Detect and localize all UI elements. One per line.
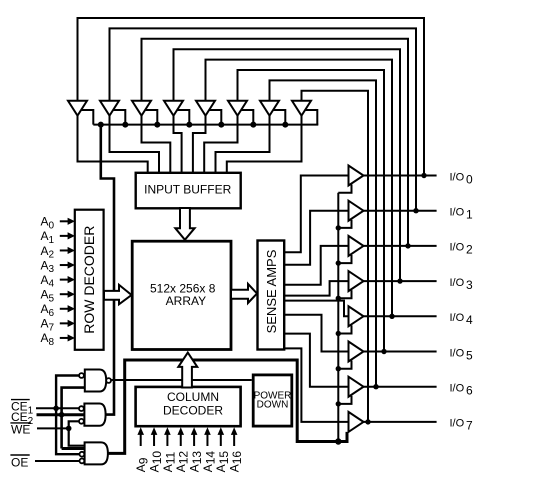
node enable bus tap 5 [250, 122, 256, 128]
wire sense amp out 7 to out tri 7 [284, 348, 350, 422]
wire output of input tri 4 into INPUT BUFFER [193, 114, 206, 175]
buffer input tri 4 [196, 101, 215, 116]
svg-text:OE: OE [11, 456, 28, 470]
wire WE branch vertical [69, 421, 85, 445]
wire I/O5 output line [362, 351, 437, 353]
node CE1 branch [53, 406, 59, 412]
node I/O2 riser junction [405, 243, 410, 248]
wire gate U1 output to POWER DOWN [107, 379, 252, 381]
buffer input tri 2 [132, 101, 151, 116]
wire sense amp out 1 to out tri 1 [284, 211, 350, 265]
block SENSE AMPS [258, 241, 285, 350]
node I/O3 riser junction [397, 278, 402, 283]
label OE with overline [10, 455, 29, 470]
label CE1 with overline [11, 400, 34, 417]
wire I/O3 output line [362, 280, 437, 282]
buffer input tri 0 [68, 101, 87, 116]
input arrow A0 [60, 218, 75, 225]
block INPUT BUFFER [136, 173, 241, 209]
node I/O5 riser junction [381, 349, 386, 354]
block POWER DOWN [253, 375, 292, 426]
wire enable stub of out tri 6 [338, 396, 351, 404]
wire gate U2 output to enable bus [101, 125, 114, 415]
input arrow A5 [60, 291, 75, 298]
gate U1 chip-enable NAND [79, 370, 111, 392]
node enable bus tap 4 [218, 122, 224, 128]
input arrow A2 [60, 247, 75, 254]
buffer output tri I/O7 [349, 412, 364, 432]
input arrow A4 [60, 276, 75, 283]
input arrow A14 [204, 427, 211, 446]
wire enable stub of out tri 0 [338, 185, 351, 193]
svg-text:SENSE AMPS: SENSE AMPS [264, 249, 279, 333]
input arrow A15 [218, 427, 225, 446]
gate U2 write-enable AND [79, 404, 106, 426]
wire DIN2 (I/O2 riser, top bus wire, into input buffer tri) [142, 39, 409, 246]
node OE line tap 1 [336, 225, 341, 230]
wire input-buffer enable bus [93, 124, 318, 126]
wire I/O4 output line [362, 315, 437, 317]
svg-text:DOWN: DOWN [257, 400, 289, 411]
input arrow A12 [177, 427, 184, 446]
node I/O0 riser junction [421, 173, 426, 178]
wire enable stub of input tri 1 [113, 110, 125, 125]
wire enable stub of input tri 3 [177, 110, 189, 125]
svg-text:WE: WE [11, 422, 30, 436]
node WE branch [66, 426, 72, 432]
svg-text:ROW DECODER: ROW DECODER [81, 226, 97, 334]
wire I/O2 output line [362, 245, 437, 247]
wire sense amp out 4 to out tri 4 [284, 301, 350, 317]
wire sense amp out 5 to out tri 5 [284, 315, 350, 352]
wire enable stub of out tri 1 [338, 220, 351, 228]
node I/O6 riser junction [373, 384, 378, 389]
node enable bus tap 3 [186, 122, 192, 128]
node enable bus tap 1 [122, 122, 128, 128]
wire enable stub of out tri 3 [338, 290, 351, 298]
wire output of input tri 7 into INPUT BUFFER [227, 114, 302, 175]
node enable bus tap 6 [282, 122, 288, 128]
buffer input tri 6 [260, 101, 279, 116]
wire output of input tri 5 into INPUT BUFFER [204, 114, 237, 175]
buffer output tri I/O1 [349, 201, 364, 221]
wire enable stub of input tri 5 [241, 110, 253, 125]
wire CE2 input [37, 413, 85, 416]
input arrow A13 [191, 427, 198, 446]
wire DIN5 (I/O5 riser, top bus wire, into input buffer tri) [238, 70, 385, 352]
wire WE input [37, 427, 69, 429]
wire DIN0 (I/O0 riser, top bus wire, into input buffer tri) [78, 18, 425, 176]
input arrow A16 [231, 427, 238, 446]
buffer output tri I/O6 [349, 377, 364, 397]
input arrow A10 [151, 427, 158, 446]
wire CE1 branch vertical [56, 376, 80, 455]
wire enable stub of input tri 7 [305, 110, 317, 125]
label WE with overline [10, 422, 31, 436]
wire sense amp out 6 to out tri 6 [284, 334, 350, 387]
arrow ARRAY to SENSE AMPS [231, 284, 257, 303]
node enable bus feed [98, 122, 104, 128]
wire DIN3 (I/O3 riser, top bus wire, into input buffer tri) [174, 49, 401, 281]
wire DIN6 (I/O6 riser, top bus wire, into input buffer tri) [270, 80, 377, 386]
buffer output tri I/O0 [349, 166, 364, 186]
arrow INPUT BUFFER to ARRAY [175, 208, 194, 240]
wire OE input [35, 460, 80, 462]
wire sense amp out 2 to out tri 2 [284, 246, 350, 285]
wire output of input tri 2 into INPUT BUFFER [142, 114, 171, 175]
wire enable stub of input tri 6 [273, 110, 285, 125]
wire enable stub of input tri 0 [81, 110, 93, 125]
wire I/O6 output line [362, 386, 437, 388]
wire enable stub of input tri 4 [209, 110, 221, 125]
wire enable stub of out tri 4 [338, 325, 351, 333]
node OE line tap 2 [336, 260, 341, 265]
svg-text:COLUMN: COLUMN [167, 390, 219, 404]
input arrow A11 [164, 427, 171, 446]
wire output of input tri 0 into INPUT BUFFER [78, 114, 148, 175]
block memory ARRAY [132, 241, 231, 349]
wire DIN7 (I/O7 riser, top bus wire, into input buffer tri) [302, 91, 369, 422]
node I/O1 riser junction [413, 208, 418, 213]
buffer input tri 5 [228, 101, 247, 116]
buffer input tri 1 [100, 101, 119, 116]
input arrow A1 [60, 232, 75, 239]
block COLUMN DECODER [136, 387, 241, 426]
node CE2 branch [59, 412, 65, 418]
wire CE1 input [36, 407, 79, 409]
wire DIN4 (I/O4 riser, top bus wire, into input buffer tri) [206, 60, 393, 317]
wire enable stub of out tri 2 [338, 255, 351, 263]
wire DIN1 (I/O1 riser, top bus wire, into input buffer tri) [110, 28, 417, 210]
node OE line tap 3 [336, 296, 341, 301]
buffer output tri I/O5 [349, 342, 364, 362]
node I/O7 riser junction [365, 419, 370, 424]
svg-text:DECODER: DECODER [163, 404, 223, 418]
wire I/O7 output line [362, 421, 437, 423]
buffer input tri 7 [292, 101, 311, 116]
node OE line tap 5 [336, 366, 341, 371]
wire gate U3 output to I/O output-enable line [106, 360, 347, 453]
buffer output tri I/O3 [349, 271, 364, 291]
wire I/O output-enable line [337, 193, 339, 442]
block ROW DECODER [75, 210, 104, 350]
node I/O4 riser junction [389, 314, 394, 319]
gate U3 output-enable AND [80, 442, 108, 464]
arrow COLUMN DECODER to ARRAY [178, 353, 197, 388]
buffer output tri I/O4 [349, 306, 364, 326]
wire I/O1 output line [362, 210, 437, 212]
wire output of input tri 3 into INPUT BUFFER [174, 114, 182, 175]
wire I/O0 output line [362, 175, 437, 177]
wire enable stub of out tri 5 [338, 361, 351, 369]
wire sense amp out 3 to out tri 3 [284, 281, 350, 296]
wire enable stub of input tri 2 [145, 110, 157, 125]
wire CE2 to gate U3 [62, 447, 85, 450]
buffer output tri I/O2 [349, 236, 364, 256]
input arrow A3 [60, 261, 75, 268]
wire CE2 branch vertical [62, 388, 85, 449]
wire output of input tri 6 into INPUT BUFFER [216, 114, 270, 175]
node OE line tap 4 [336, 331, 341, 336]
node enable bus tap 2 [154, 122, 160, 128]
input arrow A8 [60, 334, 75, 341]
wire sense amp out 0 to out tri 0 [284, 176, 350, 253]
arrow ROW DECODER to ARRAY [104, 285, 132, 305]
buffer input tri 3 [164, 101, 183, 116]
input arrow A9 [137, 427, 144, 446]
input arrow A7 [60, 320, 75, 327]
node OE line tap 6 [336, 401, 341, 406]
wire output of input tri 1 into INPUT BUFFER [110, 114, 160, 175]
svg-text:ARRAY: ARRAY [166, 294, 206, 308]
input arrow A6 [60, 305, 75, 312]
svg-text:INPUT BUFFER: INPUT BUFFER [144, 183, 231, 197]
node OE line bottom junction [335, 438, 341, 444]
